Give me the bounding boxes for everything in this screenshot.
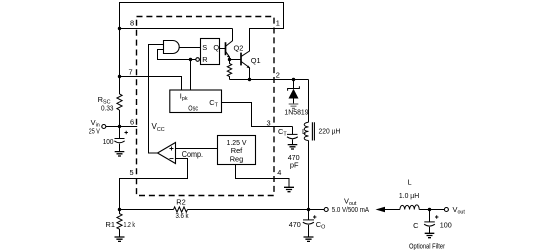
oscillator box [170, 90, 222, 113]
node Q1 emitter [248, 78, 251, 81]
svg-text:S: S [202, 43, 207, 52]
wire oscillator to and gate and latch R [158, 50, 196, 91]
svg-text:4: 4 [277, 168, 281, 177]
svg-text:Q: Q [213, 43, 219, 52]
capacitor CT 470pF [278, 127, 300, 170]
svg-text:pF: pF [290, 160, 299, 169]
node filter output [428, 208, 431, 211]
wire arrow to filter inductor [384, 209, 400, 211]
resistor R1 [106, 210, 136, 238]
capacitor C filter 100uF [413, 210, 452, 234]
node Vin [118, 125, 121, 128]
svg-text:100: 100 [103, 137, 114, 146]
svg-text:C: C [413, 221, 419, 230]
svg-text:5.0 V/500 mA: 5.0 V/500 mA [332, 205, 369, 214]
wire feedback left segment [120, 209, 174, 211]
terminal Vout filter [444, 205, 465, 216]
comparator [158, 143, 204, 164]
svg-text:Osc: Osc [188, 104, 198, 113]
resistor R2 [174, 197, 189, 220]
svg-text:R2: R2 [176, 197, 185, 206]
transistor Q2 [226, 29, 244, 60]
inductor L 220uH [302, 122, 340, 140]
ground (pin 4) [284, 187, 294, 191]
svg-text:Q1: Q1 [251, 56, 261, 65]
svg-text:1N5819: 1N5819 [284, 107, 308, 116]
node pin 8 tee [118, 27, 121, 30]
node diode tap [292, 78, 295, 81]
wire pin8/pin1 external tie [120, 3, 284, 95]
svg-text:L: L [302, 127, 306, 136]
svg-text:0.33: 0.33 [101, 104, 114, 113]
svg-text:2: 2 [276, 71, 280, 80]
svg-text:1: 1 [276, 19, 280, 28]
optional filter arrow [376, 207, 386, 212]
wire comparator minus to pin 5 and feedback node [120, 159, 188, 210]
svg-text:Comp.: Comp. [182, 150, 203, 159]
wire pin 2 corner to inductor [308, 80, 310, 123]
svg-text:7: 7 [128, 68, 132, 77]
wire pin 8 [120, 28, 233, 30]
ground (input cap) [115, 152, 125, 156]
node oscillator/R [189, 58, 192, 61]
wire pin 7 [120, 77, 182, 91]
wire latch Q to Q2 base [220, 48, 226, 50]
svg-text:Optional Filter: Optional Filter [409, 242, 445, 250]
terminal Vin [89, 118, 106, 136]
wire and gate to latch S [179, 47, 200, 49]
wire ref reg to comparator plus [176, 148, 218, 150]
svg-text:1.2 k: 1.2 k [124, 220, 136, 229]
svg-text:8: 8 [130, 19, 134, 28]
svg-text:Reg: Reg [230, 155, 244, 164]
svg-text:L: L [407, 177, 411, 186]
svg-text:5: 5 [129, 168, 133, 177]
node output [307, 208, 310, 211]
svg-text:1.0 µH: 1.0 µH [399, 191, 419, 200]
IC dashed box [137, 17, 275, 196]
node Q2 emitter / Q1 base [228, 58, 231, 61]
resistor Q1 base-emitter [227, 60, 231, 80]
reference regulator box [218, 136, 256, 165]
ground (filter C) [425, 233, 435, 237]
ground (R1) [115, 237, 125, 241]
wire inductor to output node [308, 141, 310, 210]
node pin 7 tee [118, 75, 121, 78]
svg-text:220 µH: 220 µH [319, 127, 341, 136]
svg-text:6: 6 [130, 118, 134, 127]
transistor Q1 [241, 29, 261, 80]
inductor L filter 1.0uH [399, 177, 419, 209]
wire filter inductor to terminal [419, 209, 444, 211]
node feedback (R1/R2) [118, 208, 121, 211]
latch (S R Q) [196, 39, 220, 65]
wire pin 3 (CT) [222, 103, 293, 127]
capacitor Co 470uF [289, 210, 326, 238]
and gate [164, 41, 180, 54]
wire pin 4 [236, 165, 290, 188]
svg-text:R1: R1 [106, 220, 115, 229]
svg-text:470: 470 [289, 220, 301, 229]
wire feedback to output node [188, 209, 325, 211]
wire Rsc to Vin node [119, 110, 121, 139]
wire pin 2 [230, 79, 309, 81]
svg-text:Q2: Q2 [234, 43, 244, 52]
wire Q1 base [230, 59, 242, 61]
wire pin 6 (Vin rail) [106, 126, 137, 128]
diode D1 1N5819 [284, 80, 308, 117]
resistor Rsc [98, 94, 122, 113]
svg-text:25 V: 25 V [89, 127, 100, 136]
svg-text:3.6 k: 3.6 k [175, 211, 188, 220]
capacitor 100uF input [103, 131, 128, 152]
wire comparator output to and gate [149, 45, 164, 154]
terminal Vout [324, 196, 369, 214]
svg-text:100: 100 [440, 221, 452, 230]
svg-text:R: R [202, 55, 207, 64]
ground (CT cap) [288, 145, 298, 149]
ground (Co) [304, 237, 314, 241]
